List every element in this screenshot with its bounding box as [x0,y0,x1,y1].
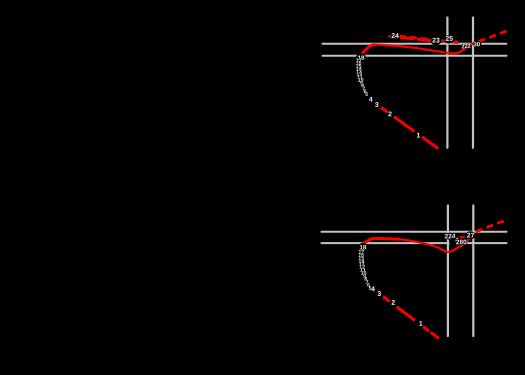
node 2 label (bottom) [392,300,395,305]
node 11 label [360,268,365,272]
node 5 label [365,92,368,96]
node 2 label (top) [388,111,391,116]
gray horizontal reference line bottom-1 [322,231,507,233]
node 7 label [363,87,365,91]
node 5 label [369,286,372,290]
node 18 label (bottom) [360,245,366,249]
red solid trajectory dip hours 20-26 (bottom) [400,233,475,252]
node 6 label [364,89,367,93]
red dashed trajectory rising hours 28-30 (bottom) [476,220,508,232]
stray tick above node 25 (top) [447,34,448,35]
gray vertical reference line top-2 [472,18,474,148]
red solid trajectory dip hours 19-22 (top) [374,42,474,53]
node 9 label [360,81,363,85]
red overlap strand 24-23 (top) [400,38,433,41]
red thick dashed strand hours 22-25 (top) [400,36,463,43]
node 14 label [356,67,361,71]
gray horizontal reference line top-2 [323,55,507,57]
red dashed trajectory hours 1-3 (bottom) [383,297,439,339]
node 10 label [361,271,366,275]
gray vertical reference line top-1 [446,18,448,148]
nodes 20-22 overlapping labels (top) [461,44,470,49]
red short dashed strand near cluster (bottom) [460,236,465,238]
node 16 label [359,253,364,257]
node 24 label (top) [392,33,399,38]
node 23 halo (top) [431,37,441,45]
red tick before node 24 (top) [389,35,391,38]
node 3 label (bottom) [377,291,380,296]
nodes 22-24 overlapping labels (bottom) [445,234,456,239]
node 26 label overlapped (bottom) [455,238,458,242]
node 14 label [359,259,364,263]
node 27 halo (bottom) [465,231,475,239]
nodes 25-26 overlapping labels (bottom) [456,240,466,245]
node 3 label (top) [375,102,378,107]
node 18 label (top) [358,55,364,59]
red thick bend hour 18-19 (top) [361,45,375,55]
halo of 22-24 cluster (bottom) [443,233,456,240]
gray vertical reference line bottom-1 [447,206,449,337]
node 7 label [366,280,368,284]
node 30 label (top) [474,42,480,46]
cluster halo (bottom) [449,238,463,246]
node 10 label [358,78,363,82]
node 18 halo (bottom) [358,243,368,251]
red thick bend hour 18-19 (bottom) [363,238,400,243]
node 13 label [359,262,364,266]
node 1 label (top) [417,133,420,138]
node 27 label (bottom) [467,233,474,238]
node 12 label [360,265,365,269]
node 17 label [359,250,364,254]
node 30 halo (top) [474,41,482,48]
node 4 label (top) [369,97,373,102]
node 25 label (top) [446,36,453,41]
node 17 label [356,58,361,62]
node 15 label [359,256,364,260]
red dashed trajectory rising hours 29-30 (top) [479,31,508,42]
gray horizontal reference line bottom-2 [322,242,507,244]
node 8 label [364,277,367,281]
red dashed trajectory hours 1-4 (top) [381,107,438,148]
node 9 label [363,274,366,278]
node 13 label [356,70,361,74]
node 25 halo (top) [444,35,454,43]
node 16 label [356,61,361,65]
node 8 label [361,84,364,88]
gray horizontal reference line top-1 [323,43,507,45]
node 15 label [356,64,361,68]
node 11 label [357,75,362,79]
node 12 label [357,72,362,76]
node 1 label (bottom) [419,321,422,326]
gray vertical reference line bottom-2 [472,206,474,337]
node 4 label (bottom) [371,287,375,292]
node 18 halo (top) [356,53,366,61]
node 6 label [367,283,370,287]
node 23 label (top) [432,38,439,43]
